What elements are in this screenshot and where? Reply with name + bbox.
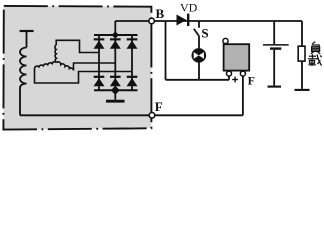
- svg-text:B: B: [156, 6, 165, 21]
- svg-text:F: F: [155, 99, 163, 114]
- svg-text:F: F: [248, 73, 255, 87]
- svg-text:S: S: [201, 26, 208, 41]
- svg-text:VD: VD: [180, 1, 198, 15]
